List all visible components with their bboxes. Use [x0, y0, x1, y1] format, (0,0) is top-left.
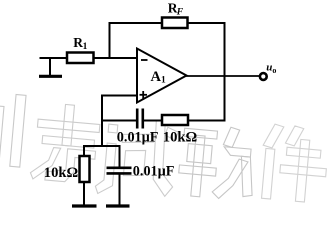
wire: RF left horizontal [109, 22, 164, 24]
resistor 10k vertical [80, 156, 90, 182]
op-amp minus sign [141, 59, 148, 61]
op-amp A1 [137, 49, 187, 103]
wire: series RC mid [144, 120, 163, 122]
op-amp plus sign [140, 94, 148, 96]
svg-text:0.01µF: 0.01µF [117, 130, 159, 146]
ground (left) [39, 75, 62, 78]
ground (bottom right) [106, 204, 130, 207]
watermark char ruan [177, 123, 258, 201]
wire: junction to vertical resistor [83, 145, 85, 157]
wire: output [186, 75, 260, 77]
ground (bottom left) [72, 204, 97, 207]
resistor R1 [67, 53, 94, 64]
svg-text:1: 1 [83, 42, 88, 52]
watermark char shi [95, 115, 180, 200]
resistor RF [162, 18, 188, 29]
capacitor C series (0.01uF) [136, 109, 139, 129]
svg-text:10kΩ: 10kΩ [163, 129, 198, 145]
resistor 10k series [162, 115, 188, 125]
svg-text:0.01µF: 0.01µF [133, 163, 175, 179]
output terminal circle [260, 73, 267, 80]
wire: series RC right [187, 120, 226, 122]
watermark stroke (partial char at left edge) [0, 93, 26, 167]
watermark char kao [30, 102, 101, 184]
capacitor C parallel (0.01uF) [107, 167, 132, 170]
svg-text:o: o [272, 66, 276, 75]
wire: junction to parallel capacitor [119, 145, 121, 168]
wire: stub to left ground [49, 57, 51, 76]
wire: vertical resistor to ground [83, 181, 85, 206]
wire: RF right horizontal [187, 22, 226, 24]
wire: parallel capacitor to ground [119, 174, 121, 206]
svg-text:10kΩ: 10kΩ [44, 165, 79, 181]
svg-text:A: A [151, 69, 162, 85]
wire: R1 right to op-amp [93, 57, 139, 59]
svg-text:1: 1 [161, 76, 166, 86]
wire: middle vertical [101, 95, 103, 148]
wire: feedback right vertical [224, 22, 226, 122]
wire: plus input [101, 95, 138, 97]
watermark char jian [259, 123, 330, 203]
wire: feedback left vertical [109, 22, 111, 58]
wire: bottom junction horizontal [83, 145, 121, 147]
svg-text:F: F [176, 8, 184, 18]
wire: R1 left [40, 57, 69, 59]
wire: series RC left [101, 120, 136, 122]
